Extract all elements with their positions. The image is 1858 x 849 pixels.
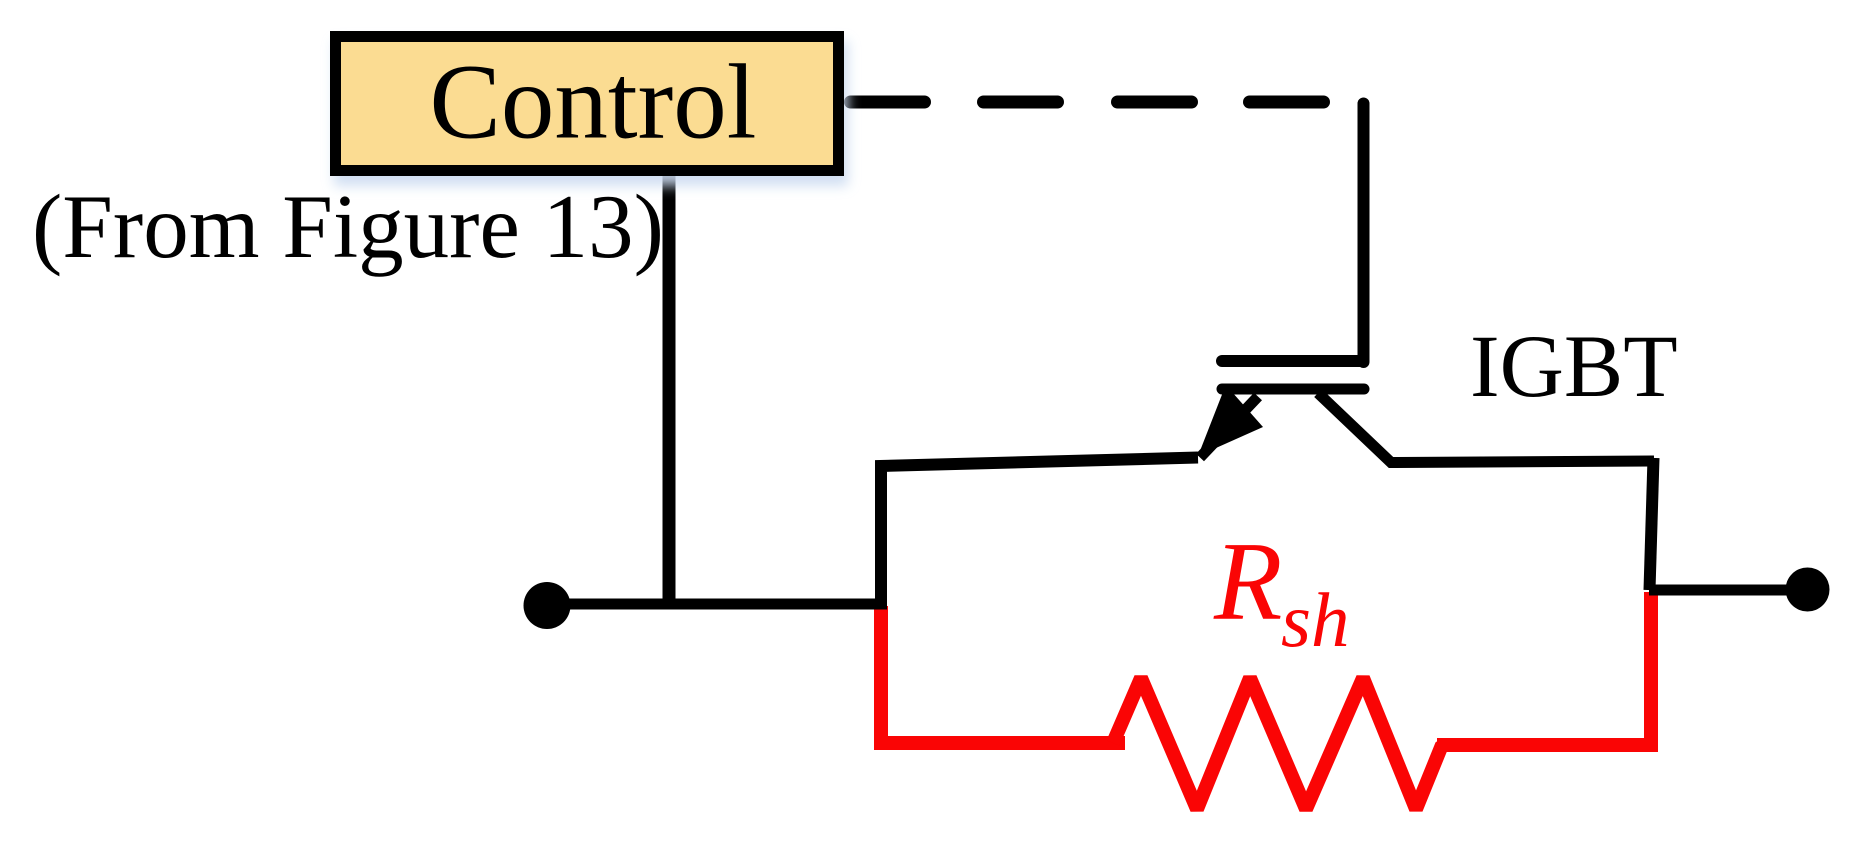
IGBT emitter arrowhead [1198,392,1263,456]
wire: left terminal to junction (main left wire) [549,599,887,610]
svg-text:sh: sh [1281,577,1349,663]
svg-text:(From Figure 13): (From Figure 13) [32,176,664,277]
IGBT gate bar [1222,355,1363,367]
wire: right vertical down to right node [1650,458,1654,590]
wire: gate lead vertical [1358,104,1370,363]
resistor R_sh leads (red) [881,606,1125,743]
svg-text:IGBT: IGBT [1470,318,1678,416]
wire: right node to right terminal [1649,585,1807,596]
IGBT channel bar [1222,384,1364,395]
resistor R_sh zigzag body (red) [1113,678,1455,809]
control box [336,37,839,171]
svg-text:R: R [1213,520,1282,644]
node: right terminal dot [1786,568,1830,612]
IGBT collector line and wire to right [1318,393,1654,463]
wire: control box lead down to node [663,172,676,606]
wire: dashed control-to-gate link [851,96,1324,109]
IGBT emitter line [1200,397,1258,458]
svg-text:Control: Control [430,44,757,162]
node: left terminal dot [524,582,571,629]
label R_sh [1213,520,1349,663]
wire: junction up and slant to IGBT emitter [881,458,1198,605]
